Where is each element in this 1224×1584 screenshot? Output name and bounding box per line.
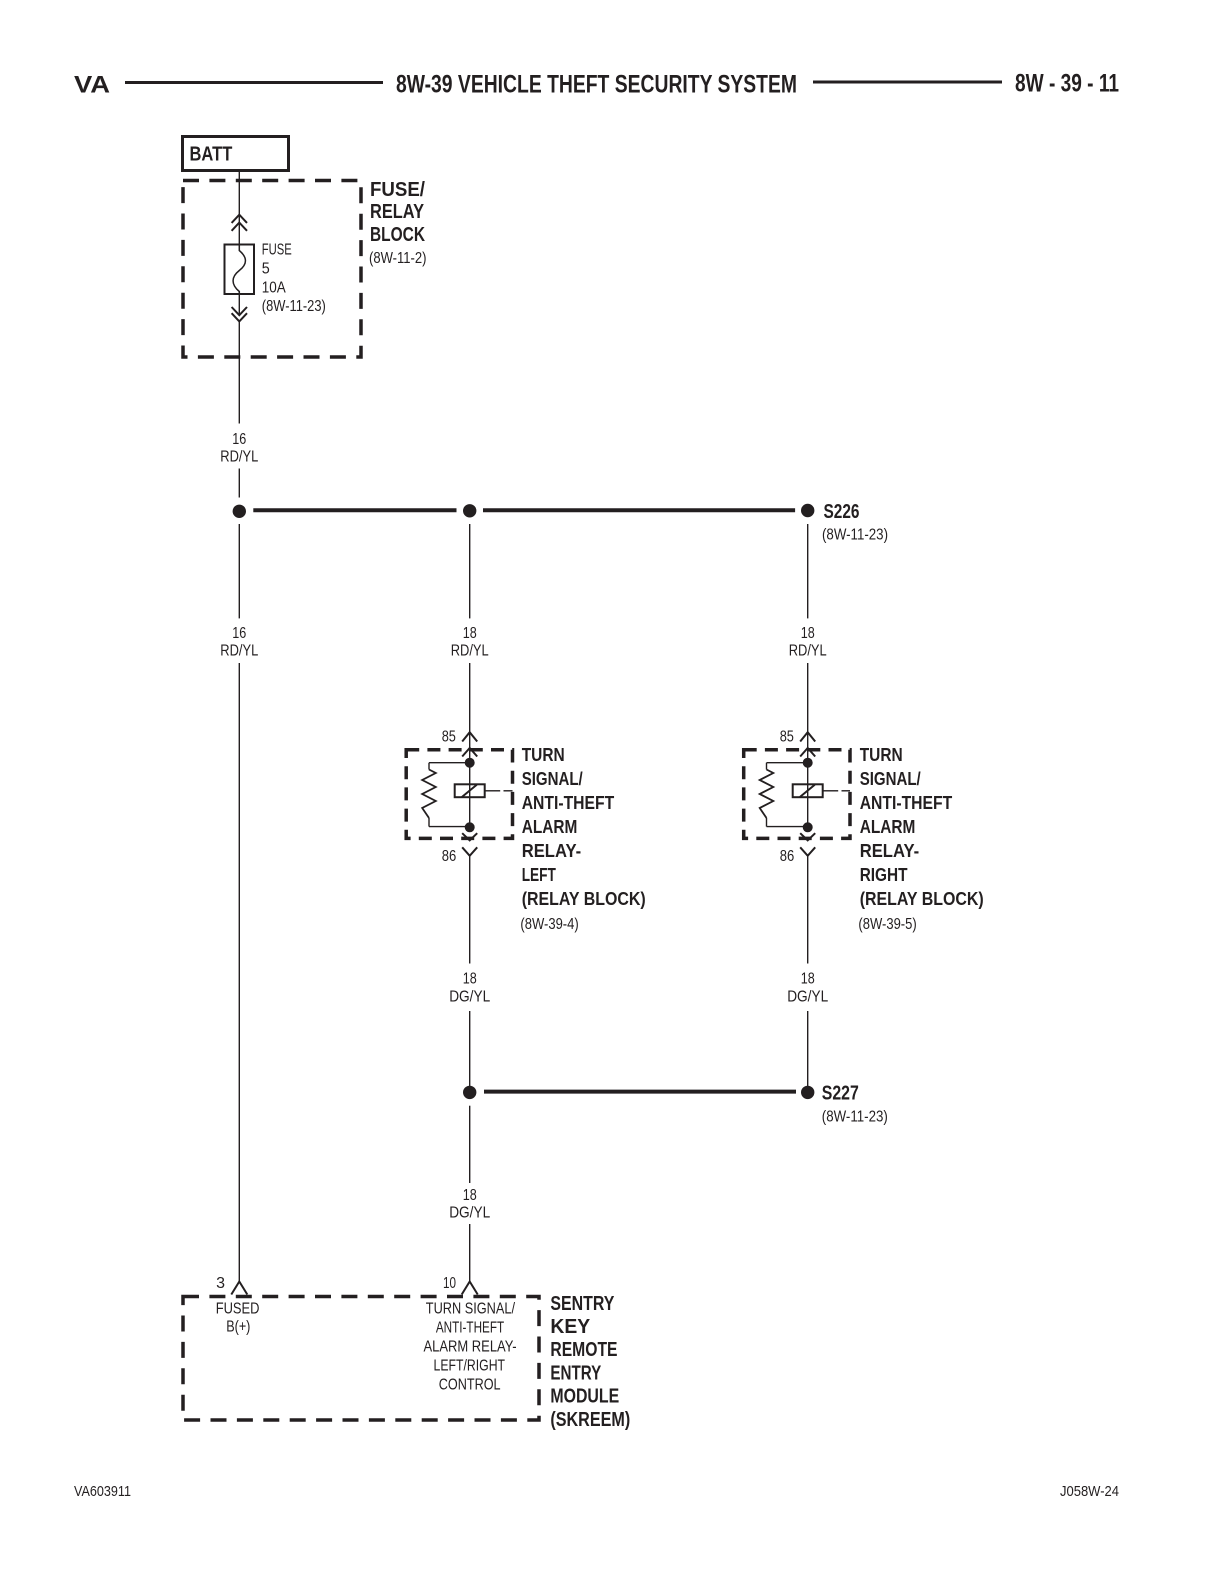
svg-text:RD/YL: RD/YL — [220, 643, 258, 660]
svg-text:16: 16 — [232, 625, 246, 642]
svg-text:18: 18 — [463, 970, 477, 987]
svg-text:SENTRY: SENTRY — [550, 1293, 615, 1315]
svg-text:ENTRY: ENTRY — [550, 1362, 601, 1384]
svg-text:10: 10 — [443, 1275, 456, 1292]
svg-text:8W - 39 - 11: 8W - 39 - 11 — [1015, 70, 1119, 98]
svg-text:RD/YL: RD/YL — [451, 643, 489, 660]
svg-text:(SKREEM): (SKREEM) — [550, 1409, 630, 1431]
svg-text:18: 18 — [463, 625, 477, 642]
svg-text:KEY: KEY — [550, 1316, 590, 1338]
svg-text:86: 86 — [780, 848, 795, 865]
svg-text:DG/YL: DG/YL — [449, 988, 490, 1005]
svg-text:RIGHT: RIGHT — [860, 865, 908, 885]
svg-text:86: 86 — [442, 848, 457, 865]
svg-text:(8W-11-23): (8W-11-23) — [262, 298, 326, 315]
svg-text:REMOTE: REMOTE — [550, 1339, 617, 1361]
svg-text:85: 85 — [442, 729, 456, 746]
svg-text:RELAY-: RELAY- — [860, 841, 920, 861]
svg-text:85: 85 — [780, 729, 794, 746]
svg-text:10A: 10A — [262, 279, 286, 296]
svg-text:VA: VA — [74, 72, 110, 99]
svg-text:ALARM: ALARM — [860, 817, 916, 837]
svg-text:LEFT: LEFT — [522, 865, 556, 885]
svg-text:BLOCK: BLOCK — [370, 224, 425, 246]
svg-text:(8W-11-23): (8W-11-23) — [822, 1108, 888, 1125]
svg-text:RD/YL: RD/YL — [789, 643, 827, 660]
svg-text:B(+): B(+) — [226, 1319, 250, 1336]
svg-text:CONTROL: CONTROL — [439, 1377, 501, 1394]
svg-text:TURN: TURN — [860, 745, 903, 765]
svg-text:RELAY-: RELAY- — [522, 841, 582, 861]
svg-text:(8W-39-4): (8W-39-4) — [520, 916, 578, 933]
svg-text:LEFT/RIGHT: LEFT/RIGHT — [434, 1358, 506, 1375]
svg-text:3: 3 — [216, 1275, 225, 1292]
svg-text:ANTI-THEFT: ANTI-THEFT — [522, 793, 615, 813]
svg-text:(8W-11-2): (8W-11-2) — [369, 250, 427, 267]
svg-text:ANTI-THEFT: ANTI-THEFT — [436, 1320, 504, 1337]
svg-text:BATT: BATT — [190, 143, 233, 166]
svg-text:18: 18 — [801, 625, 815, 642]
svg-text:18: 18 — [801, 970, 815, 987]
svg-text:TURN: TURN — [522, 745, 565, 765]
svg-text:MODULE: MODULE — [550, 1386, 619, 1408]
svg-text:FUSE: FUSE — [262, 242, 292, 259]
svg-text:VA603911: VA603911 — [74, 1483, 131, 1500]
svg-text:DG/YL: DG/YL — [787, 988, 828, 1005]
svg-text:ANTI-THEFT: ANTI-THEFT — [860, 793, 953, 813]
svg-text:J058W-24: J058W-24 — [1060, 1483, 1119, 1500]
svg-text:S226: S226 — [824, 501, 860, 523]
svg-text:RELAY: RELAY — [370, 201, 425, 223]
svg-text:(8W-39-5): (8W-39-5) — [858, 916, 916, 933]
svg-text:ALARM RELAY-: ALARM RELAY- — [423, 1339, 516, 1356]
svg-text:(8W-11-23): (8W-11-23) — [822, 527, 888, 544]
svg-text:(RELAY BLOCK): (RELAY BLOCK) — [860, 889, 984, 909]
svg-text:FUSED: FUSED — [216, 1301, 260, 1318]
svg-text:DG/YL: DG/YL — [449, 1205, 490, 1222]
svg-text:18: 18 — [463, 1187, 477, 1204]
svg-text:SIGNAL/: SIGNAL/ — [860, 769, 921, 789]
svg-text:FUSE/: FUSE/ — [370, 179, 425, 201]
svg-text:(RELAY BLOCK): (RELAY BLOCK) — [522, 889, 646, 909]
svg-text:SIGNAL/: SIGNAL/ — [522, 769, 583, 789]
svg-text:TURN SIGNAL/: TURN SIGNAL/ — [426, 1301, 516, 1318]
svg-text:ALARM: ALARM — [522, 817, 578, 837]
svg-text:S227: S227 — [822, 1083, 859, 1105]
svg-text:16: 16 — [232, 431, 246, 448]
svg-text:RD/YL: RD/YL — [220, 449, 258, 466]
svg-text:8W-39 VEHICLE THEFT SECURITY S: 8W-39 VEHICLE THEFT SECURITY SYSTEM — [396, 71, 797, 99]
svg-text:5: 5 — [262, 261, 270, 278]
